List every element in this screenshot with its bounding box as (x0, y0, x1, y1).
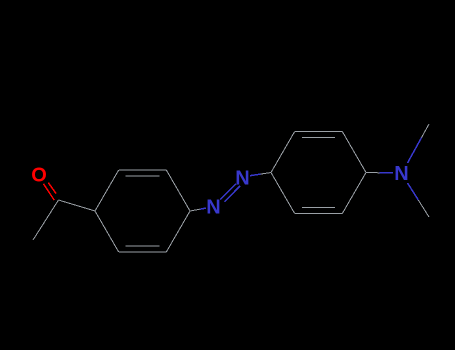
bond N1=N2 azo double bond (blue) (220, 184, 240, 202)
ring1 edge upper-left (95, 170, 119, 211)
ring1 edge bottom (119, 251, 167, 253)
ring2 edge bottom (295, 213, 343, 215)
ring1 edge top (119, 169, 167, 171)
bond ring1-N1 blue half (200, 208, 206, 209)
svg-text:O: O (31, 164, 47, 186)
bond N2-ring2 gray half (261, 173, 272, 175)
ring2 edge lower-right (342, 173, 366, 214)
ring2 edge upper-left (271, 131, 295, 172)
ring2 edge upper-right (342, 131, 366, 172)
bond N3-CH3 upper methyl blue half (408, 138, 422, 163)
ring1 inner double line top (126, 175, 160, 177)
bond C1-CH3 (acetyl methyl) (33, 200, 59, 240)
svg-text:N: N (235, 168, 249, 190)
bond N2-ring2 blue half (250, 174, 261, 176)
bond N3-CH3 lower methyl blue half (408, 183, 419, 200)
bond N3-CH3 upper methyl gray half (422, 124, 430, 138)
svg-text:N: N (394, 163, 408, 185)
ring1 benzene (left) (95, 170, 190, 252)
ring1 edge lower-right (166, 211, 190, 252)
bond C1=O double bond (red) (43, 183, 56, 201)
bond ring2-N3 blue half (380, 172, 394, 174)
ring2 inner double line top (302, 136, 335, 138)
ring2 benzene (right) (271, 131, 366, 213)
bond C1-ring1 (59, 200, 96, 211)
bond N3-CH3 lower methyl gray half (418, 200, 429, 217)
ring2 edge lower-left (271, 173, 295, 214)
ring1 edge lower-left (95, 211, 119, 252)
ring2 inner double line bottom (302, 207, 335, 209)
ring1 edge upper-right (166, 170, 190, 211)
bond ring1-N1 gray half (190, 209, 200, 211)
svg-text:N: N (206, 197, 220, 219)
ring1 inner double line bottom (126, 245, 160, 247)
bond ring2-N3 gray half (366, 172, 380, 174)
ring2 edge top (295, 130, 343, 132)
